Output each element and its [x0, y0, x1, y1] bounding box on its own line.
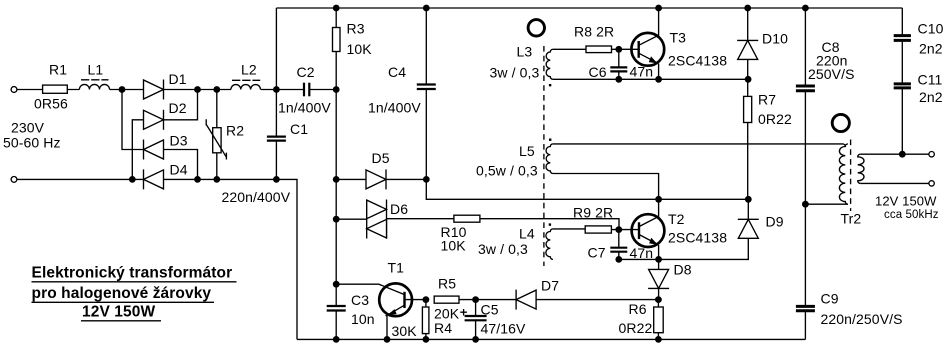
diode D5 — [336, 150, 426, 189]
wire mains top row — [17, 89, 336, 91]
svg-text:C7: C7 — [588, 245, 606, 261]
svg-text:C6: C6 — [589, 64, 607, 80]
node D1-D2 cathodes — [194, 86, 201, 93]
title block — [32, 265, 237, 321]
svg-text:12V 150W: 12V 150W — [875, 194, 937, 209]
svg-text:D6: D6 — [390, 201, 408, 217]
svg-text:10K: 10K — [347, 41, 373, 57]
node T3 base — [615, 46, 622, 53]
resistor R3 — [333, 8, 373, 90]
node R2 bottom — [213, 176, 220, 183]
resistor R1 — [34, 61, 68, 111]
node C11 bottom — [899, 151, 906, 158]
svg-text:10n: 10n — [351, 311, 375, 327]
wire Tr2 primary bottom — [805, 203, 848, 205]
capacitor C10 — [894, 8, 944, 84]
output terminal bottom — [929, 181, 934, 186]
diode D1 — [144, 71, 187, 100]
wire T2 emitter row — [619, 258, 659, 260]
capacitor C8 — [796, 8, 855, 204]
wire secondary top to output — [860, 153, 929, 155]
node R7 bottom / D9 top — [745, 196, 752, 203]
svg-text:T3: T3 — [670, 30, 687, 46]
svg-text:1n/400V: 1n/400V — [368, 100, 421, 116]
svg-text:220n/400V: 220n/400V — [222, 189, 291, 205]
capacitor C9 — [796, 204, 903, 339]
svg-text:C9: C9 — [821, 291, 839, 307]
capacitor C3 — [327, 292, 375, 339]
svg-text:C4: C4 — [388, 64, 406, 80]
svg-text:T2: T2 — [668, 211, 685, 227]
svg-text:D4: D4 — [170, 162, 188, 178]
node C8 top — [802, 5, 809, 12]
svg-text:0,5w / 0,3: 0,5w / 0,3 — [476, 163, 538, 179]
svg-text:cca 50kHz: cca 50kHz — [884, 209, 939, 221]
diode D2 — [144, 100, 187, 130]
node D10/R7 — [745, 76, 752, 83]
svg-text:R6: R6 — [629, 301, 647, 317]
svg-text:10K: 10K — [441, 238, 467, 254]
svg-text:2SC4138: 2SC4138 — [668, 53, 727, 69]
L3 phase dot — [549, 84, 551, 86]
winding polarity marker circle top — [528, 20, 544, 36]
svg-text:3w / 0,3: 3w / 0,3 — [478, 241, 528, 257]
svg-text:R5: R5 — [438, 276, 456, 292]
capacitor C2 — [278, 64, 331, 116]
diode D4 — [144, 162, 188, 190]
winding L5 — [476, 143, 553, 179]
node D2 anode on neutral — [129, 176, 136, 183]
wire top rail — [276, 7, 902, 9]
capacitor C7 — [588, 230, 654, 261]
input terminal top — [11, 87, 17, 93]
diac D6 — [336, 200, 408, 239]
svg-text:D5: D5 — [372, 150, 390, 166]
resistor R8 — [553, 24, 639, 53]
transistor T3 — [631, 8, 727, 79]
node R3/C2 — [333, 86, 340, 93]
svg-text:L1: L1 — [88, 61, 104, 77]
svg-text:2n2: 2n2 — [919, 89, 943, 105]
svg-text:R4: R4 — [434, 320, 452, 336]
node T2 emitter — [655, 256, 662, 263]
svg-text:L5: L5 — [519, 143, 535, 159]
svg-text:230V: 230V — [11, 120, 45, 136]
node C5 bottom — [472, 336, 479, 343]
wire D2 cathode up to plus node — [164, 90, 198, 120]
wire L5 top to Tr2 primary — [553, 144, 845, 147]
wire secondary bottom to output — [860, 182, 929, 184]
node R3 top — [333, 5, 340, 12]
L5 phase dot — [549, 139, 551, 141]
resistor R4 — [422, 300, 459, 340]
node C1 bottom — [273, 176, 280, 183]
node D3-D4 anodes — [194, 176, 201, 183]
svg-text:R1: R1 — [49, 61, 67, 77]
capacitor C1 — [222, 90, 309, 206]
svg-text:D10: D10 — [762, 31, 788, 47]
L4 phase dot — [549, 223, 551, 225]
svg-text:C5: C5 — [481, 302, 499, 318]
resistor R6 — [619, 300, 664, 340]
node R6 bottom — [655, 336, 662, 343]
node C4 top — [423, 5, 430, 12]
wire bottom rail — [297, 338, 805, 340]
node T1 emitter on rail — [384, 336, 391, 343]
svg-text:T1: T1 — [388, 260, 405, 276]
svg-text:12V 150W: 12V 150W — [82, 304, 155, 321]
node C3 bottom on rail — [333, 336, 340, 343]
node D5 right / C4 bottom — [423, 176, 430, 183]
winding L3 — [490, 44, 553, 81]
node C6 bottom — [615, 76, 622, 83]
svg-text:3w / 0,3: 3w / 0,3 — [490, 65, 540, 81]
node T3 collector top rail — [655, 5, 662, 12]
node D6 left — [333, 216, 340, 223]
svg-text:47/16V: 47/16V — [481, 321, 527, 337]
inductor L1 — [79, 61, 109, 89]
svg-text:0R56: 0R56 — [34, 96, 68, 112]
svg-text:30K: 30K — [392, 323, 418, 339]
diode D9 — [659, 199, 784, 259]
svg-text:250V/S: 250V/S — [808, 66, 855, 82]
svg-text:C11: C11 — [918, 72, 943, 88]
wire L5 bottom to midpoint — [553, 174, 659, 200]
svg-text:D8: D8 — [674, 262, 692, 278]
transformer Tr2 primary winding — [839, 144, 861, 227]
svg-text:pro halogenové žárovky: pro halogenové žárovky — [32, 285, 212, 302]
svg-text:2SC4138: 2SC4138 — [668, 230, 727, 246]
svg-text:D9: D9 — [766, 214, 784, 230]
output terminal top — [929, 152, 934, 157]
svg-text:L4: L4 — [519, 226, 535, 242]
diode D8 — [648, 259, 692, 299]
wire midpoint row — [426, 179, 748, 199]
wire R3 vertical down — [335, 90, 337, 307]
node T1 collector — [333, 281, 340, 288]
inductor L2 — [231, 62, 261, 90]
wire bridge bottom row — [17, 179, 297, 339]
label 230V 50-60 Hz — [3, 120, 61, 151]
svg-text:2n2: 2n2 — [919, 41, 943, 57]
svg-text:0R22: 0R22 — [619, 320, 653, 336]
node R5/C5/D7 — [472, 296, 479, 303]
node R2 top — [213, 86, 220, 93]
diode D3 — [144, 133, 188, 160]
svg-text:L2: L2 — [241, 62, 257, 78]
node T3 emitter — [655, 76, 662, 83]
node D5 left — [333, 176, 340, 183]
capacitor C11 — [894, 72, 943, 155]
svg-text:R8 2R: R8 2R — [574, 24, 614, 40]
winding polarity marker circle Tr2 — [832, 114, 849, 131]
svg-text:D2: D2 — [169, 100, 187, 116]
wire node A down to D3 — [122, 90, 144, 150]
node T1 base — [423, 296, 430, 303]
svg-text:220n/250V/S: 220n/250V/S — [821, 311, 903, 327]
capacitor C6 — [589, 49, 654, 80]
wire D3 anode down to minus rail — [164, 150, 198, 180]
node C7 bottom — [615, 256, 622, 263]
node A bridge input — [119, 86, 126, 93]
svg-text:R3: R3 — [347, 21, 365, 37]
diode D7 — [476, 278, 659, 310]
resistor R5 — [434, 276, 475, 304]
svg-text:C1: C1 — [290, 121, 308, 137]
transistor T1 — [336, 260, 426, 340]
capacitor C4 — [368, 8, 436, 179]
node L2/C1/C2/top-rail junction — [273, 86, 280, 93]
svg-text:1n/400V: 1n/400V — [278, 100, 331, 116]
svg-text:C2: C2 — [297, 64, 315, 80]
capacitor C5 — [460, 300, 526, 340]
svg-text:R2: R2 — [226, 123, 244, 139]
svg-text:R9 2R: R9 2R — [573, 205, 613, 221]
label output — [875, 194, 939, 222]
resistor R7 — [744, 79, 792, 199]
input terminal bottom — [11, 177, 17, 183]
diode D10 — [737, 8, 788, 79]
node C8/C9/Tr2 — [802, 201, 809, 208]
svg-text:50-60 Hz: 50-60 Hz — [3, 135, 61, 151]
resistor R10 — [387, 215, 620, 253]
node midpoint — [655, 196, 662, 203]
resistor R9 — [553, 205, 639, 234]
svg-text:0R22: 0R22 — [758, 111, 792, 127]
wire junction up to top rail — [275, 8, 277, 90]
svg-text:C3: C3 — [351, 292, 369, 308]
dashed core line Tr2 — [850, 140, 852, 212]
transformer Tr2 secondary winding — [858, 154, 864, 183]
svg-text:D7: D7 — [541, 278, 559, 294]
node T2 base — [615, 226, 622, 233]
node R4 bottom — [423, 336, 430, 343]
winding L4 — [478, 226, 553, 260]
wire L3 bottom / emitter row — [553, 78, 748, 80]
svg-text:D3: D3 — [170, 133, 188, 149]
varistor R2 — [206, 90, 244, 180]
dashed core line Tr1 — [543, 46, 545, 266]
svg-text:Tr2: Tr2 — [841, 211, 862, 227]
svg-text:R7: R7 — [758, 92, 776, 108]
svg-text:D1: D1 — [169, 71, 187, 87]
svg-text:Elektronický transformátor: Elektronický transformátor — [32, 265, 233, 282]
node D8/D7/R6 — [655, 296, 662, 303]
node D10 top — [744, 5, 751, 12]
transistor T2 — [632, 199, 728, 259]
wire D2 anode — [132, 120, 143, 180]
svg-text:L3: L3 — [517, 44, 533, 60]
svg-text:C10: C10 — [918, 21, 944, 37]
